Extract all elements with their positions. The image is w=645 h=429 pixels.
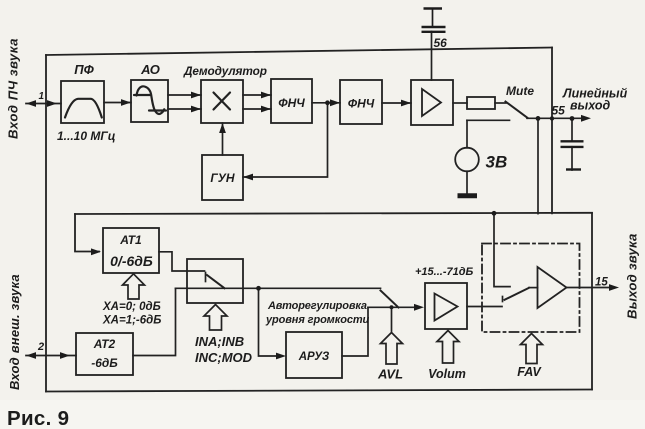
svg-text:выход: выход — [570, 99, 611, 113]
svg-text:Volum: Volum — [428, 367, 466, 381]
svg-text:АРУЗ: АРУЗ — [298, 351, 330, 363]
svg-text:XA=0; 0дБ: XA=0; 0дБ — [102, 301, 161, 313]
svg-text:Mute: Mute — [506, 84, 534, 98]
svg-text:2: 2 — [37, 341, 44, 353]
svg-text:АТ1: АТ1 — [119, 233, 142, 247]
svg-text:Демодулятор: Демодулятор — [183, 64, 267, 78]
svg-text:56: 56 — [434, 36, 448, 50]
svg-text:15: 15 — [595, 277, 608, 289]
svg-text:+15...-71дБ: +15...-71дБ — [415, 266, 474, 278]
svg-text:INA;INB: INA;INB — [195, 334, 244, 349]
svg-text:ФНЧ: ФНЧ — [348, 97, 375, 111]
svg-text:1: 1 — [39, 91, 45, 102]
svg-text:ГУН: ГУН — [210, 171, 234, 185]
svg-text:AVL: AVL — [377, 367, 403, 382]
svg-text:1...10 МГц: 1...10 МГц — [57, 129, 116, 143]
svg-text:55: 55 — [552, 104, 566, 118]
svg-text:0/-6дБ: 0/-6дБ — [110, 253, 153, 269]
svg-text:INC;MOD: INC;MOD — [195, 350, 253, 365]
svg-text:АТ2: АТ2 — [93, 337, 116, 351]
svg-text:3В: 3В — [486, 153, 508, 172]
svg-text:АО: АО — [140, 62, 160, 77]
svg-text:Вход ПЧ звука: Вход ПЧ звука — [6, 38, 21, 139]
svg-text:ПФ: ПФ — [74, 62, 94, 77]
svg-text:Выход звука: Выход звука — [625, 233, 640, 319]
svg-text:Авторегулировка: Авторегулировка — [267, 300, 367, 312]
svg-text:XA=1;-6дБ: XA=1;-6дБ — [102, 315, 161, 327]
svg-text:уровня громкости: уровня громкости — [265, 314, 370, 326]
svg-text:FAV: FAV — [517, 365, 542, 379]
svg-text:Вход внеш. звука: Вход внеш. звука — [7, 274, 22, 390]
svg-text:-6дБ: -6дБ — [91, 356, 118, 370]
svg-text:ФНЧ: ФНЧ — [278, 96, 305, 110]
svg-text:Рис. 9: Рис. 9 — [7, 407, 69, 429]
